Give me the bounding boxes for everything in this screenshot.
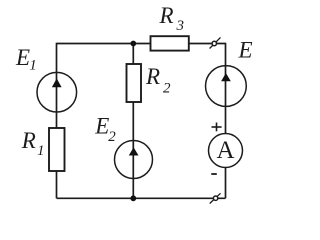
svg-text:E: E (15, 45, 30, 70)
node junction top (130, 41, 136, 47)
switch terminal bottom (210, 193, 221, 203)
svg-text:1: 1 (29, 58, 37, 74)
wire bottom horizontal (57, 197, 226, 199)
svg-text:2: 2 (163, 81, 171, 97)
svg-text:R: R (145, 64, 160, 89)
label R1 (21, 128, 45, 159)
wire top right segment (189, 43, 226, 45)
svg-text:2: 2 (108, 129, 116, 145)
ammeter A (209, 134, 243, 168)
wire top horizontal (57, 43, 151, 45)
svg-text:E: E (238, 38, 253, 63)
node junction bottom (130, 195, 136, 201)
label E1 (15, 45, 37, 74)
minus sign (211, 173, 217, 175)
EMF source E (206, 66, 247, 107)
wire middle branch vertical (132, 44, 134, 199)
svg-text:E: E (94, 114, 109, 139)
label R2 (145, 64, 171, 97)
plus sign (212, 123, 222, 132)
svg-text:A: A (216, 137, 234, 164)
resistor R3 (151, 36, 189, 50)
label E2 (94, 114, 116, 145)
EMF source E2 (115, 141, 153, 179)
label E (238, 38, 253, 63)
wire right branch vertical (225, 43, 227, 199)
svg-text:R: R (21, 128, 36, 153)
resistor R2 (127, 64, 142, 102)
svg-text:3: 3 (176, 18, 185, 34)
switch terminal top (210, 37, 221, 48)
svg-text:1: 1 (37, 143, 45, 159)
EMF source E1 (37, 72, 77, 112)
label R3 (159, 3, 185, 34)
wire left branch vertical (56, 43, 58, 199)
svg-text:R: R (159, 3, 174, 28)
resistor R1 (49, 128, 65, 171)
